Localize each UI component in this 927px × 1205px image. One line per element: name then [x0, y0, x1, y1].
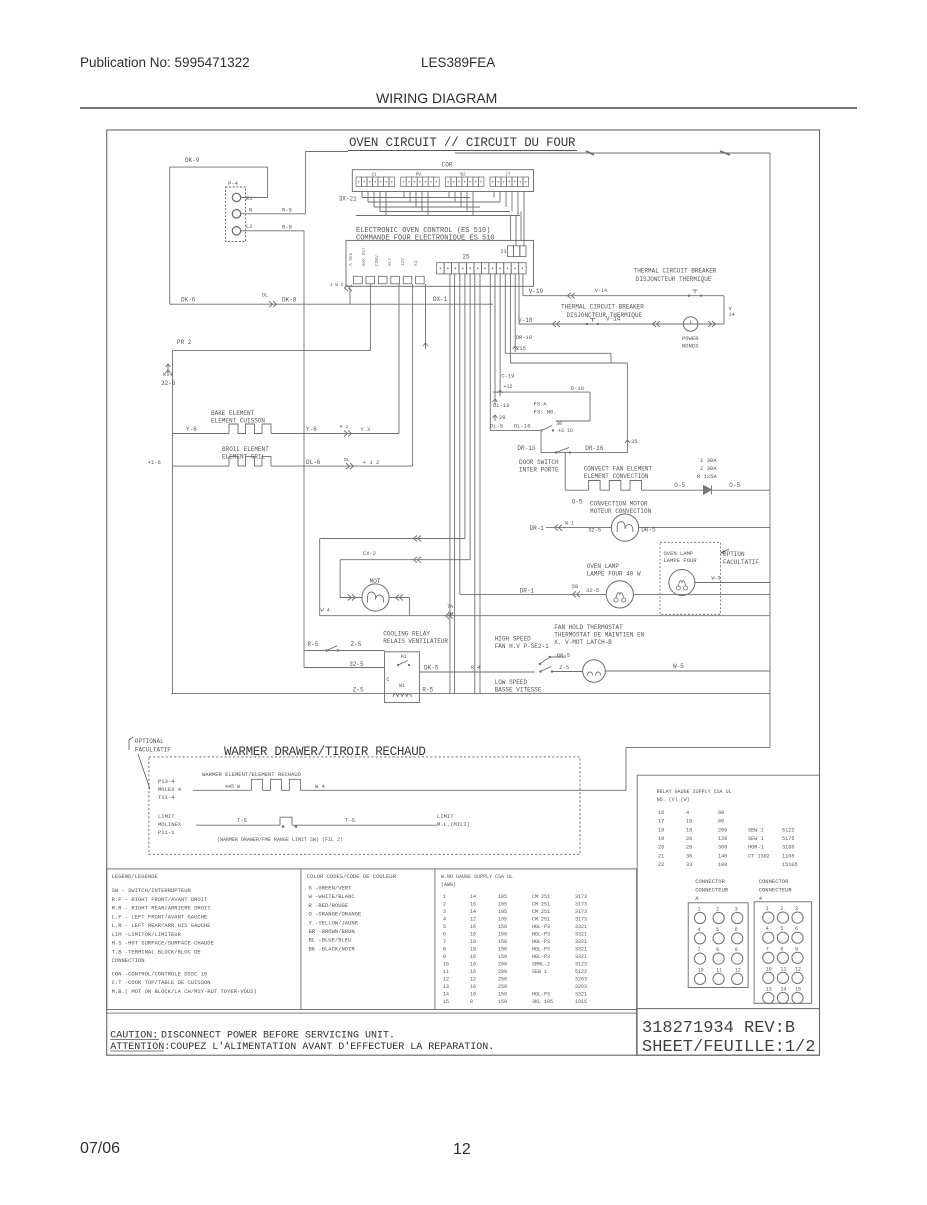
svg-text:DR-5: DR-5 [641, 527, 656, 534]
svg-text:DK-8: DK-8 [282, 297, 297, 304]
svg-text:3321: 3321 [575, 932, 587, 938]
svg-text:19: 19 [658, 836, 664, 842]
svg-text:DISCONNECT POWER BEFORE SERVIC: DISCONNECT POWER BEFORE SERVICING UNIT. [161, 1031, 395, 1042]
svg-text:DL: DL [344, 457, 350, 463]
svg-text:1: 1 [766, 906, 769, 912]
svg-text:300: 300 [718, 845, 727, 851]
svg-text:T.B -TERMINAL BLOCK/BLOC DE: T.B -TERMINAL BLOCK/BLOC DE [112, 948, 202, 955]
svg-text:CM 251: CM 251 [532, 902, 550, 908]
svg-text:BR -BROWN/BRUN: BR -BROWN/BRUN [309, 928, 355, 935]
svg-text:R.R - RIGHT REAR/ARRIERE DROIT: R.R - RIGHT REAR/ARRIERE DROIT [112, 905, 212, 912]
svg-text:SRML-2: SRML-2 [532, 962, 550, 968]
svg-text:1015: 1015 [575, 999, 587, 1005]
svg-text:ATTENTION:COUPEZ L'ALIMENTATIO: ATTENTION:COUPEZ L'ALIMENTATION AVANT D'… [110, 1041, 494, 1053]
svg-text:4: 4 [698, 927, 701, 933]
svg-text:15: 15 [443, 999, 449, 1005]
svg-text:C: C [386, 677, 389, 683]
svg-text:OVEN CIRCUIT // CIRCUIT DU FOU: OVEN CIRCUIT // CIRCUIT DU FOUR [349, 136, 576, 150]
svg-text:16: 16 [470, 969, 476, 975]
svg-text:Z-5: Z-5 [351, 641, 362, 648]
svg-text:3100: 3100 [782, 845, 794, 851]
svg-text:Z-5: Z-5 [559, 664, 569, 671]
svg-text:CONVECT FAN ELEMENT: CONVECT FAN ELEMENT [584, 466, 653, 473]
svg-text:DR-5: DR-5 [557, 652, 570, 659]
svg-text:FAN H.V P-SE2-1: FAN H.V P-SE2-1 [495, 643, 549, 650]
svg-text:DISJONCTEUR THERMIQUE: DISJONCTEUR THERMIQUE [567, 312, 643, 319]
svg-text:COLOR CODES/CODE DE COULEUR: COLOR CODES/CODE DE COULEUR [307, 873, 397, 880]
svg-text:25: 25 [462, 254, 470, 261]
svg-text:120: 120 [718, 836, 727, 842]
svg-text:HGL-P3: HGL-P3 [532, 932, 550, 938]
svg-text:ELEMENT GRIL: ELEMENT GRIL [222, 454, 266, 461]
svg-text:A NEU: A NEU [348, 252, 354, 266]
svg-text:6: 6 [735, 927, 738, 933]
svg-text:P13-4: P13-4 [158, 778, 175, 785]
svg-text:250: 250 [498, 984, 507, 990]
svg-text:12V: 12V [400, 258, 406, 266]
svg-text:DL-16: DL-16 [514, 423, 531, 430]
svg-text:CONVECTION MOTOR: CONVECTION MOTOR [590, 501, 648, 508]
svg-text:1105: 1105 [782, 853, 794, 859]
svg-text:DR-13: DR-13 [517, 445, 535, 452]
svg-text:3173: 3173 [575, 917, 587, 923]
svg-text:DR-1: DR-1 [530, 525, 545, 532]
svg-text:HGR-1: HGR-1 [748, 845, 764, 851]
svg-text:H.S -HOT SURFACE/SURFACE CHAUD: H.S -HOT SURFACE/SURFACE CHAUDE [112, 940, 215, 947]
svg-text:J1: J1 [371, 172, 377, 178]
svg-text:4 W X: 4 W X [330, 282, 344, 288]
svg-text:14: 14 [780, 987, 786, 993]
svg-text:150: 150 [498, 999, 507, 1005]
svg-text:W-3: W-3 [712, 576, 721, 582]
svg-text:3263: 3263 [575, 984, 587, 990]
svg-text:6: 6 [443, 932, 446, 938]
svg-text:215: 215 [516, 345, 526, 352]
svg-text:(WARMER DRAWER/FME RANGE LIMIT: (WARMER DRAWER/FME RANGE LIMIT SW) (FIL … [217, 837, 343, 843]
svg-text:CT 1302: CT 1302 [748, 853, 770, 859]
svg-text:7: 7 [766, 946, 769, 952]
svg-text:DL: DL [262, 293, 268, 299]
svg-text:200: 200 [718, 827, 727, 833]
svg-text:DL-5: DL-5 [490, 423, 503, 430]
svg-text:150: 150 [498, 947, 507, 953]
svg-text:DL-6: DL-6 [306, 459, 321, 466]
svg-text:30: 30 [686, 853, 692, 859]
svg-text:3: 3 [443, 909, 446, 915]
svg-text:LOW SPEED: LOW SPEED [495, 679, 528, 686]
svg-text:DR-1: DR-1 [520, 588, 535, 595]
svg-text:LEGEND/LEGENDE: LEGEND/LEGENDE [112, 873, 159, 880]
svg-text:5: 5 [443, 924, 446, 930]
svg-text:5122: 5122 [575, 969, 587, 975]
svg-text:33: 33 [686, 862, 692, 868]
svg-text:15: 15 [795, 987, 801, 993]
svg-text:5122: 5122 [782, 827, 794, 833]
svg-text:(R: (R [447, 612, 453, 618]
svg-text:HGL-P3: HGL-P3 [532, 939, 550, 945]
svg-text:DL-10: DL-10 [493, 402, 510, 409]
svg-text:DX-1: DX-1 [433, 296, 448, 303]
svg-text:32-5: 32-5 [588, 527, 601, 534]
svg-text:1: 1 [443, 894, 446, 900]
svg-text:30: 30 [556, 421, 562, 427]
svg-text:F3: N6.: F3: N6. [534, 409, 557, 416]
svg-text:9: 9 [735, 947, 738, 953]
svg-text:14: 14 [443, 992, 449, 998]
svg-text:ELEMENT CUISSON: ELEMENT CUISSON [211, 418, 265, 425]
svg-text:+3 16: +3 16 [558, 428, 573, 434]
svg-text:V-14: V-14 [606, 316, 621, 323]
svg-text:16: 16 [470, 962, 476, 968]
svg-text:HIGH SPEED: HIGH SPEED [495, 636, 531, 643]
svg-text:60: 60 [718, 819, 724, 825]
svg-text:3X-21: 3X-21 [339, 196, 357, 203]
svg-text:12: 12 [795, 966, 801, 972]
svg-text:FACULTATIF: FACULTATIF [135, 747, 171, 754]
svg-text:250: 250 [498, 977, 507, 983]
svg-text:23: 23 [501, 249, 507, 255]
svg-text:58: 58 [572, 583, 579, 590]
svg-text:60: 60 [718, 810, 724, 816]
svg-text:LIM -LIMITOR/LIMITEUR: LIM -LIMITOR/LIMITEUR [112, 931, 182, 938]
svg-text:18: 18 [658, 827, 664, 833]
svg-text:11: 11 [443, 969, 449, 975]
svg-text:Publication No: 5995471322: Publication No: 5995471322 [80, 55, 250, 70]
svg-text:16: 16 [470, 954, 476, 960]
svg-text:105: 105 [498, 894, 507, 900]
svg-text:3321: 3321 [575, 954, 587, 960]
svg-text:OPTIONAL: OPTIONAL [135, 738, 164, 745]
svg-text:G -GREEN/VERT: G -GREEN/VERT [309, 885, 353, 892]
svg-text:CX-2: CX-2 [363, 550, 376, 557]
svg-text:20: 20 [658, 845, 664, 851]
svg-text:3: 3 [795, 906, 798, 912]
svg-text:M.B.( MOT OR BLOCK/LA CH/MSY-R: M.B.( MOT OR BLOCK/LA CH/MSY-RUT TOYER-V… [112, 988, 257, 995]
svg-text:100: 100 [718, 862, 727, 868]
svg-text:Z-5: Z-5 [353, 687, 364, 694]
svg-text:BL -BLUE/BLEU: BL -BLUE/BLEU [309, 937, 352, 944]
svg-text:N: N [249, 207, 252, 214]
svg-text:11: 11 [780, 966, 786, 972]
svg-text:105: 105 [498, 917, 507, 923]
svg-text:O -ORANGE/ORANGE: O -ORANGE/ORANGE [309, 911, 363, 918]
svg-text:MOLEX 4: MOLEX 4 [158, 786, 182, 793]
svg-text:13: 13 [766, 987, 772, 993]
svg-text:V-18: V-18 [518, 317, 533, 324]
svg-text:3173: 3173 [575, 894, 587, 900]
svg-text:10: 10 [470, 992, 476, 998]
svg-text:INTER PORTE: INTER PORTE [519, 467, 559, 474]
svg-text:RLY: RLY [387, 258, 393, 266]
svg-text:O-5: O-5 [572, 499, 583, 506]
svg-text:R-8: R-8 [282, 224, 292, 231]
svg-text:J7: J7 [505, 172, 511, 178]
svg-text:BROIL ELEMENT: BROIL ELEMENT [222, 446, 269, 453]
svg-text:OVEN LAMP: OVEN LAMP [664, 550, 694, 557]
svg-text:R -RED/ROUGE: R -RED/ROUGE [309, 902, 349, 909]
svg-text:L.F - LEFT FRONT/AVANT GAUCHE: L.F - LEFT FRONT/AVANT GAUCHE [112, 913, 208, 920]
svg-text:D-16: D-16 [571, 385, 584, 392]
svg-text:4: 4 [443, 917, 446, 923]
svg-text:COMMANDE FOUR ELECTRONIQUE ES: COMMANDE FOUR ELECTRONIQUE ES 510 [356, 235, 495, 243]
svg-text:OPTION: OPTION [723, 551, 745, 558]
svg-text:SEW 1: SEW 1 [532, 969, 547, 975]
svg-text:CONNECTOR: CONNECTOR [695, 878, 725, 885]
svg-text:T-5: T-5 [345, 817, 355, 824]
svg-text:R 125A: R 125A [697, 473, 718, 480]
svg-text:R.F - RIGHT FRONT/AVANT DROIT: R.F - RIGHT FRONT/AVANT DROIT [112, 896, 208, 903]
svg-text:150: 150 [498, 939, 507, 945]
svg-text:10: 10 [443, 962, 449, 968]
svg-text:DR-16: DR-16 [585, 445, 603, 452]
svg-text:FACULTATIF: FACULTATIF [723, 559, 759, 566]
svg-text:V-19: V-19 [529, 288, 544, 295]
svg-text:8: 8 [443, 947, 446, 953]
svg-text:BASSE VITESSE: BASSE VITESSE [495, 687, 542, 694]
svg-text:3321: 3321 [575, 939, 587, 945]
svg-text:4: 4 [766, 926, 769, 932]
svg-text:MOLINEX: MOLINEX [158, 821, 182, 828]
svg-text:16: 16 [470, 984, 476, 990]
svg-text:35: 35 [631, 438, 638, 445]
svg-text:CONNECTEUR: CONNECTEUR [759, 887, 793, 894]
svg-text:200: 200 [498, 962, 507, 968]
svg-text:CONNECTOR: CONNECTOR [759, 878, 789, 885]
svg-text:18: 18 [470, 939, 476, 945]
svg-text:CONV: CONV [374, 255, 380, 266]
svg-text:3321: 3321 [575, 992, 587, 998]
svg-text:C-19: C-19 [501, 373, 514, 380]
svg-text:12: 12 [470, 977, 476, 983]
svg-text:W 4: W 4 [321, 608, 330, 614]
svg-text:HGL-P3: HGL-P3 [532, 954, 550, 960]
svg-text:3321: 3321 [575, 924, 587, 930]
svg-text:C.T -COOK TOP/TABLE DE CUISSON: C.T -COOK TOP/TABLE DE CUISSON [112, 979, 211, 986]
svg-text:CONNECTEUR: CONNECTEUR [695, 887, 729, 894]
svg-text:F3.A: F3.A [534, 401, 548, 408]
svg-text:E1: E1 [246, 195, 253, 202]
svg-text:K 4: K 4 [163, 371, 174, 378]
svg-text:17: 17 [658, 819, 664, 825]
svg-text:9: 9 [795, 946, 798, 952]
svg-text:5: 5 [716, 927, 719, 933]
svg-text:2: 2 [716, 907, 719, 913]
svg-text:LAMPE FOUR 40 W: LAMPE FOUR 40 W [587, 571, 641, 578]
svg-text:3263: 3263 [575, 977, 587, 983]
svg-text:105: 105 [498, 909, 507, 915]
svg-text:K1: K1 [413, 260, 419, 266]
svg-text:105: 105 [498, 902, 507, 908]
svg-text:29: 29 [499, 414, 506, 421]
svg-text:THERMOSTAT DE MAINTIEN EN: THERMOSTAT DE MAINTIEN EN [554, 632, 644, 639]
svg-text:CM 251: CM 251 [532, 917, 550, 923]
svg-text:3KL 105: 3KL 105 [532, 999, 553, 1005]
svg-text:07/06: 07/06 [80, 1140, 120, 1157]
svg-text:10: 10 [766, 966, 772, 972]
svg-text:POWER: POWER [682, 335, 699, 342]
svg-text:W -WHITE/BLANC: W -WHITE/BLANC [309, 893, 356, 900]
svg-text:LAMPE FOUR: LAMPE FOUR [664, 557, 698, 564]
svg-text:P-4: P-4 [228, 180, 239, 187]
svg-text:HGL-P3: HGL-P3 [532, 992, 550, 998]
svg-text:CM 251: CM 251 [532, 909, 550, 915]
svg-text:+1-6: +1-6 [148, 459, 161, 466]
svg-text:FAN HOLD THERMOSTAT: FAN HOLD THERMOSTAT [554, 624, 623, 631]
svg-text:4: 4 [686, 810, 689, 816]
svg-text:150: 150 [498, 924, 507, 930]
svg-text:R-5: R-5 [422, 687, 433, 694]
svg-text:COR: COR [442, 162, 453, 169]
svg-text:18: 18 [686, 827, 692, 833]
svg-text:26: 26 [686, 836, 692, 842]
svg-text:7A: 7A [447, 604, 453, 610]
svg-text:16: 16 [470, 932, 476, 938]
svg-text:O-5: O-5 [729, 482, 740, 489]
svg-text:B2: B2 [460, 172, 466, 178]
svg-text:DK-5: DK-5 [424, 665, 439, 672]
svg-text:Y-6: Y-6 [306, 426, 317, 433]
svg-text:MOTEUR CONVECTION: MOTEUR CONVECTION [590, 508, 652, 515]
svg-text:12: 12 [735, 967, 741, 973]
svg-text:SW - SWITCH/INTERRUPTEUR: SW - SWITCH/INTERRUPTEUR [112, 887, 192, 894]
svg-text:3173: 3173 [575, 909, 587, 915]
svg-text:P11-1: P11-1 [158, 829, 175, 836]
svg-text:DK-9: DK-9 [185, 157, 200, 164]
svg-text:16: 16 [658, 810, 664, 816]
svg-text:T-5: T-5 [237, 817, 247, 824]
svg-text:BONDS: BONDS [682, 343, 699, 350]
svg-text:32-6: 32-6 [161, 380, 176, 387]
svg-text:2 30A: 2 30A [700, 465, 717, 472]
svg-text:200: 200 [498, 969, 507, 975]
svg-text:LIMIT: LIMIT [437, 813, 454, 820]
svg-text:10: 10 [698, 967, 704, 973]
svg-text:BAKE ELEMENT: BAKE ELEMENT [211, 410, 255, 417]
svg-text:BK -BLACK/NOIR: BK -BLACK/NOIR [309, 945, 356, 952]
svg-text:L2: L2 [246, 223, 253, 230]
svg-text:DISJONCTEUR THERMIQUE: DISJONCTEUR THERMIQUE [636, 276, 712, 283]
svg-text:V-14: V-14 [595, 288, 607, 294]
svg-text:12: 12 [453, 1141, 471, 1158]
svg-text:140: 140 [718, 853, 727, 859]
svg-text:SHEET/FEUILLE:1/2: SHEET/FEUILLE:1/2 [642, 1038, 815, 1057]
svg-text:318271934 REV:B: 318271934 REV:B [642, 1019, 795, 1038]
svg-text:W.NO GAUGE SUPPLY CSA UL: W.NO GAUGE SUPPLY CSA UL [441, 874, 513, 880]
svg-text:22: 22 [658, 862, 664, 868]
svg-text:CM 251: CM 251 [532, 894, 550, 900]
svg-text:COOLING RELAY: COOLING RELAY [383, 631, 430, 638]
svg-text:OVEN LAMP: OVEN LAMP [587, 563, 620, 570]
svg-text:9: 9 [443, 954, 446, 960]
svg-text:(AWG): (AWG) [441, 882, 456, 888]
svg-text:8: 8 [716, 947, 719, 953]
svg-text:12: 12 [443, 977, 449, 983]
svg-text:BAK OUT: BAK OUT [361, 247, 367, 266]
svg-text:DR-10: DR-10 [516, 334, 533, 341]
svg-text:7: 7 [698, 947, 701, 953]
svg-text:ELEMENT CONVECTION: ELEMENT CONVECTION [584, 473, 649, 480]
svg-text:18: 18 [470, 947, 476, 953]
svg-text:WIRING DIAGRAM: WIRING DIAGRAM [376, 90, 497, 106]
svg-text:R-5: R-5 [282, 207, 292, 214]
svg-text:445 W: 445 W [225, 784, 240, 790]
svg-text:3123: 3123 [575, 962, 587, 968]
svg-text:+ 1 2: + 1 2 [363, 459, 380, 466]
svg-text:15105: 15105 [782, 862, 798, 868]
svg-text:NO. (V) (W): NO. (V) (W) [657, 797, 690, 803]
svg-text:150: 150 [498, 992, 507, 998]
svg-text:1: 1 [698, 907, 701, 913]
svg-text:16: 16 [470, 902, 476, 908]
svg-text:32-5: 32-5 [586, 587, 599, 594]
svg-text:SEW 1: SEW 1 [748, 836, 764, 842]
svg-text:Y-6: Y-6 [186, 426, 197, 433]
svg-text:2: 2 [443, 902, 446, 908]
svg-text:DOOR SWITCH: DOOR SWITCH [519, 459, 559, 466]
svg-text:32-5: 32-5 [349, 661, 364, 668]
svg-text:PV: PV [416, 172, 422, 178]
svg-text:PR 2: PR 2 [177, 339, 192, 346]
svg-text:150: 150 [498, 954, 507, 960]
svg-text:Y -YELLOW/JAUNE: Y -YELLOW/JAUNE [309, 919, 359, 926]
svg-text:28: 28 [686, 845, 692, 851]
svg-text:SEW 1: SEW 1 [748, 827, 764, 833]
svg-text:5: 5 [780, 926, 783, 932]
svg-text:14: 14 [729, 312, 735, 318]
svg-text:3173: 3173 [575, 902, 587, 908]
svg-text:L.R - LEFT REAR/ARR.HIS GAUCHE: L.R - LEFT REAR/ARR.HIS GAUCHE [112, 922, 212, 929]
svg-text:8: 8 [780, 946, 783, 952]
svg-text:W1: W1 [399, 683, 405, 689]
svg-text:HGL-P3: HGL-P3 [532, 924, 550, 930]
svg-text:M.L.(MILI): M.L.(MILI) [437, 821, 470, 828]
svg-text:3321: 3321 [575, 947, 587, 953]
svg-text:1 30A: 1 30A [700, 457, 717, 464]
svg-text:THERMAL CIRCUIT BREAKER: THERMAL CIRCUIT BREAKER [561, 304, 644, 311]
svg-text:RELAIS VENTILATEUR: RELAIS VENTILATEUR [383, 638, 448, 645]
svg-text:12: 12 [470, 917, 476, 923]
svg-text:5175: 5175 [782, 836, 794, 842]
svg-text:RELAY GAUGE SUPPLY CSA U: RELAY GAUGE SUPPLY CSA UL [657, 789, 732, 795]
svg-text:10: 10 [686, 819, 692, 825]
svg-text:W 1: W 1 [565, 521, 574, 527]
svg-text:8: 8 [470, 999, 473, 1005]
svg-text:HGL-P3: HGL-P3 [532, 947, 550, 953]
svg-text:7: 7 [443, 939, 446, 945]
svg-text:K 2: K 2 [340, 424, 348, 430]
svg-text:THERMAL CIRCUIT BREAKER: THERMAL CIRCUIT BREAKER [634, 268, 717, 275]
svg-text:DK-6: DK-6 [181, 297, 196, 304]
svg-text:WARMER ELEMENT/ELEMENT RECHAUD: WARMER ELEMENT/ELEMENT RECHAUD [202, 771, 302, 778]
svg-text:3: 3 [735, 907, 738, 913]
svg-text:14: 14 [470, 909, 476, 915]
svg-text:R 4: R 4 [471, 665, 480, 671]
svg-text:6: 6 [795, 926, 798, 932]
svg-text:11: 11 [716, 967, 722, 973]
svg-text:X. V-MOT LATCH-B: X. V-MOT LATCH-B [554, 639, 612, 646]
svg-text:13: 13 [443, 984, 449, 990]
svg-text:14: 14 [470, 894, 476, 900]
svg-text:CONNECTION: CONNECTION [112, 957, 145, 964]
svg-text:Y X: Y X [361, 426, 372, 433]
svg-text:21: 21 [658, 853, 664, 859]
svg-text:+12: +12 [504, 384, 513, 390]
svg-text:LIMIT: LIMIT [158, 813, 175, 820]
svg-text:W-5: W-5 [673, 663, 684, 670]
svg-text:T11-4: T11-4 [158, 794, 175, 801]
svg-text:O-5: O-5 [674, 482, 685, 489]
svg-text:W 4: W 4 [315, 783, 326, 790]
